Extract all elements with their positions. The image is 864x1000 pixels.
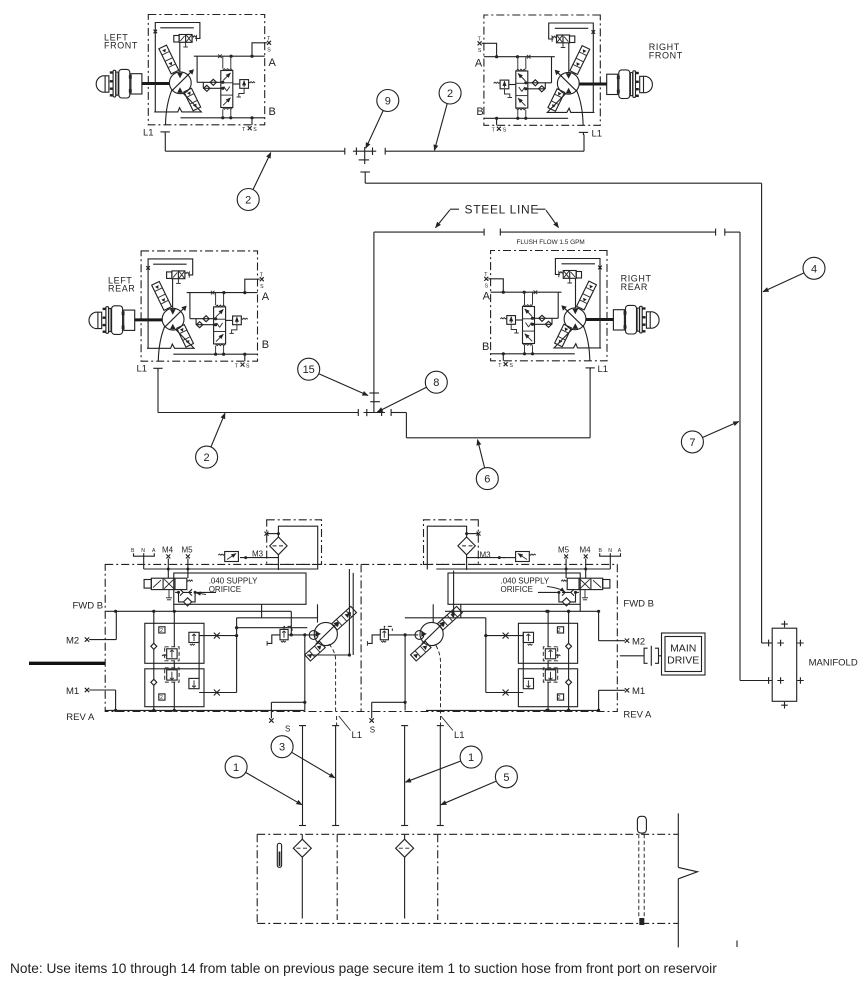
breather pipe dashed: [639, 834, 645, 925]
svg-text:6: 6: [484, 474, 490, 486]
wire L1 drop left rear: [157, 369, 159, 413]
callout balloon item 1: [405, 746, 482, 782]
svg-text:B: B: [131, 548, 135, 554]
wire L1 drop right rear: [589, 368, 591, 437]
pump charge filter assembly right (mirrored): [424, 520, 506, 570]
callout balloon item 8: [377, 371, 447, 412]
svg-text:ORIFICE: ORIFICE: [209, 585, 241, 594]
reservoir break line: [678, 813, 697, 947]
callout balloon item 4: [763, 257, 825, 292]
svg-text:REAR: REAR: [621, 282, 648, 292]
wire rear axle hose right segment: [391, 409, 590, 438]
svg-text:M2: M2: [66, 635, 79, 646]
charge relief and suction port left pump: [267, 626, 312, 722]
pump servo valve blocks right (mirrored): [405, 610, 578, 712]
wire front axle hose left segment: [165, 150, 344, 152]
manifold top port cross: [781, 621, 788, 628]
gallery edge drop right: [579, 604, 581, 611]
svg-text:A: A: [262, 291, 270, 303]
left front wheel motor assembly: [96, 15, 271, 135]
svg-text:B: B: [482, 341, 489, 353]
svg-text:15: 15: [303, 364, 315, 376]
suction strainer diamond left: [293, 834, 311, 918]
right front wheel motor assembly: [478, 15, 653, 135]
svg-text:FWD B: FWD B: [73, 601, 104, 612]
svg-text:ORIFICE: ORIFICE: [501, 585, 533, 594]
svg-text:1: 1: [468, 752, 474, 764]
drain hose dashed stub right: [440, 716, 442, 725]
leader arrow left of STEEL LINE: [436, 210, 451, 228]
callout balloon item 7: [681, 422, 738, 453]
svg-text:T: T: [242, 127, 246, 133]
svg-text:5: 5: [503, 772, 509, 784]
svg-text:B: B: [269, 106, 276, 118]
svg-text:M5: M5: [558, 546, 570, 555]
mid line y627 left: [235, 626, 307, 629]
svg-text:N: N: [141, 548, 145, 554]
svg-text:N: N: [608, 548, 612, 554]
wire L1 drop left front: [164, 134, 166, 151]
wire steel line right end to manifold lower port: [725, 229, 772, 681]
port M2 left: [66, 611, 116, 646]
svg-text:A: A: [269, 57, 277, 69]
wire charge feed right: [413, 634, 419, 636]
suction strainer diamond right: [396, 834, 414, 918]
callout balloon item 1: [225, 756, 302, 805]
pump charge filter assembly left: [240, 520, 322, 570]
right rear wheel motor assembly: [484, 251, 659, 371]
pump rotary group left: [305, 606, 357, 661]
svg-text:S: S: [370, 726, 375, 735]
fitting item 15 cross ticks: [369, 393, 380, 402]
wire charge feed left: [312, 634, 316, 636]
svg-text:MANIFOLD: MANIFOLD: [809, 657, 858, 668]
pump supply valve cluster right (mirrored): [436, 552, 620, 607]
svg-text:7: 7: [689, 437, 695, 449]
wire gallery to pump right: [433, 604, 461, 622]
svg-text:2: 2: [160, 628, 163, 634]
suction hose item 1 right: [401, 726, 408, 826]
gallery edge drop left: [173, 604, 175, 611]
svg-text:L1: L1: [598, 364, 609, 375]
stray tick mark: [736, 941, 738, 948]
wire right vertical line to manifold upper port: [762, 183, 773, 643]
svg-text:REV A: REV A: [623, 709, 652, 720]
reservoir dashed outline: [257, 834, 678, 923]
svg-text:M3: M3: [252, 549, 264, 558]
svg-text:M1: M1: [632, 686, 645, 697]
svg-text:L1: L1: [352, 730, 363, 741]
svg-text:2: 2: [204, 452, 210, 464]
svg-text:S: S: [253, 127, 257, 133]
left rear wheel motor assembly: [89, 251, 264, 371]
leader arrow right of STEEL LINE: [546, 210, 559, 227]
drain hose item 3: [332, 726, 339, 826]
wire gallery to pump left: [262, 604, 318, 622]
svg-text:FWD B: FWD B: [623, 599, 654, 610]
svg-text:FRONT: FRONT: [649, 50, 683, 60]
svg-text:L1: L1: [137, 364, 148, 375]
svg-text:A: A: [483, 290, 491, 302]
svg-text:M5: M5: [182, 546, 194, 555]
wire M3 connector right: [503, 557, 516, 559]
callout balloon item 2: [196, 413, 225, 468]
wire rear axle hose left segment: [158, 409, 358, 416]
svg-text:A: A: [152, 548, 156, 554]
leader .040 right: [547, 587, 565, 593]
input drive shaft (thick): [29, 662, 105, 665]
svg-text:REAR: REAR: [108, 284, 135, 294]
drain hose item 5: [437, 726, 444, 826]
svg-text:T: T: [498, 363, 502, 369]
pump servo valve blocks left: [145, 610, 318, 712]
reservoir baffle dashed left: [336, 834, 338, 920]
svg-text:2: 2: [160, 695, 163, 701]
manifold upper left port tick and cross: [769, 640, 784, 647]
wire FWD rail right: [445, 610, 600, 613]
svg-text:MAIN: MAIN: [670, 643, 696, 655]
svg-text:A: A: [618, 548, 622, 554]
coupling between pump and main drive: [620, 646, 662, 666]
svg-text:S: S: [260, 284, 264, 290]
wire REV rail left: [105, 709, 305, 712]
port M1 left: [66, 686, 116, 711]
drain hose dashed stub left: [336, 716, 338, 725]
thermometer gauge: [277, 843, 281, 867]
port M1 right: [599, 686, 646, 710]
fitting item 8 rear tee: [364, 409, 386, 416]
svg-text:8: 8: [433, 377, 439, 389]
wire inner gallery edge right pump: [451, 571, 454, 615]
L1 leader label right: [441, 716, 465, 741]
svg-text:2: 2: [245, 195, 251, 207]
svg-text:2: 2: [558, 695, 561, 701]
wire steel line left segment: [374, 229, 484, 236]
callout balloon item 5: [441, 766, 518, 805]
svg-text:M3: M3: [480, 550, 492, 559]
wire inner rect right edge left pump: [307, 569, 351, 657]
svg-text:L1: L1: [143, 128, 154, 139]
wire steel line right segment: [500, 229, 715, 236]
svg-text:S: S: [267, 48, 271, 54]
pump assemblies dashed enclosure: [105, 564, 617, 711]
wire front axle hose right segment: [385, 148, 584, 155]
svg-text:S: S: [478, 48, 482, 54]
wire REV rail right: [426, 709, 600, 712]
svg-text:A: A: [475, 58, 483, 70]
callout balloon item 15: [298, 358, 368, 395]
fitting item 9 front tee: [353, 147, 376, 164]
svg-text:STEEL LINE: STEEL LINE: [465, 203, 540, 217]
svg-text:B: B: [262, 339, 269, 351]
breather cap: [637, 816, 646, 833]
svg-text:3: 3: [279, 742, 285, 754]
L1 leader label left: [339, 716, 362, 741]
charge relief and suction port right pump: [367, 626, 412, 722]
svg-text:S: S: [510, 363, 514, 369]
svg-text:S: S: [503, 127, 507, 133]
svg-text:M1: M1: [66, 686, 79, 697]
svg-text:L1: L1: [592, 129, 603, 140]
svg-text:M4: M4: [162, 546, 174, 555]
callout balloon item 2: [237, 153, 271, 211]
leader .040 left: [196, 593, 206, 595]
pump enclosure divider: [360, 564, 362, 711]
leader dashes beside STEEL LINE: [450, 208, 546, 210]
suction hose item 1 left: [299, 726, 306, 826]
port M2 right: [599, 611, 646, 647]
callout balloon item 9: [366, 90, 399, 149]
svg-text:9: 9: [385, 96, 391, 108]
svg-text:2: 2: [447, 88, 453, 100]
manifold upper right cross: [797, 640, 804, 647]
svg-text:S: S: [285, 725, 290, 734]
callout balloon item 3: [271, 736, 335, 778]
svg-text:REV A: REV A: [66, 712, 95, 723]
wire steel line vertical to rear axle fitting: [373, 232, 375, 412]
main drive box: [662, 633, 706, 675]
svg-text:S: S: [485, 284, 489, 290]
manifold block: [772, 628, 797, 701]
reservoir baffle dashed right: [437, 834, 439, 920]
svg-text:M4: M4: [580, 546, 592, 555]
callout balloon item 2: [434, 82, 461, 150]
svg-text:B: B: [476, 106, 483, 118]
wire tee drop to manifold supply line: [360, 172, 761, 183]
svg-text:4: 4: [811, 263, 817, 275]
svg-text:DRIVE: DRIVE: [667, 655, 699, 667]
pump supply valve cluster left: [134, 552, 318, 607]
svg-text:FLUSH FLOW 1.5 GPM: FLUSH FLOW 1.5 GPM: [517, 239, 585, 246]
svg-text:1: 1: [233, 762, 239, 774]
case drain dashed right pump: [436, 646, 441, 714]
svg-text:B: B: [599, 548, 603, 554]
manifold bottom port cross: [781, 702, 788, 709]
svg-text:T: T: [492, 127, 496, 133]
svg-text:FRONT: FRONT: [104, 41, 138, 51]
callout balloon item 6: [476, 440, 498, 490]
svg-text:T: T: [235, 363, 239, 369]
manifold lower right cross: [797, 677, 804, 684]
svg-text:2: 2: [558, 628, 561, 634]
wire FWD rail left: [105, 610, 293, 637]
manifold lower left port tick and cross: [769, 677, 784, 684]
svg-text:L1: L1: [454, 730, 465, 741]
inner gallery double edge left: [352, 573, 354, 655]
wire L1 drop right front: [583, 135, 585, 152]
pump rotary group right: [411, 606, 463, 661]
case drain dashed left pump: [329, 644, 336, 714]
svg-text:S: S: [246, 363, 250, 369]
svg-text:M2: M2: [632, 636, 645, 647]
svg-text:Note: Use items 10 through 14: Note: Use items 10 through 14 from table…: [10, 961, 717, 976]
